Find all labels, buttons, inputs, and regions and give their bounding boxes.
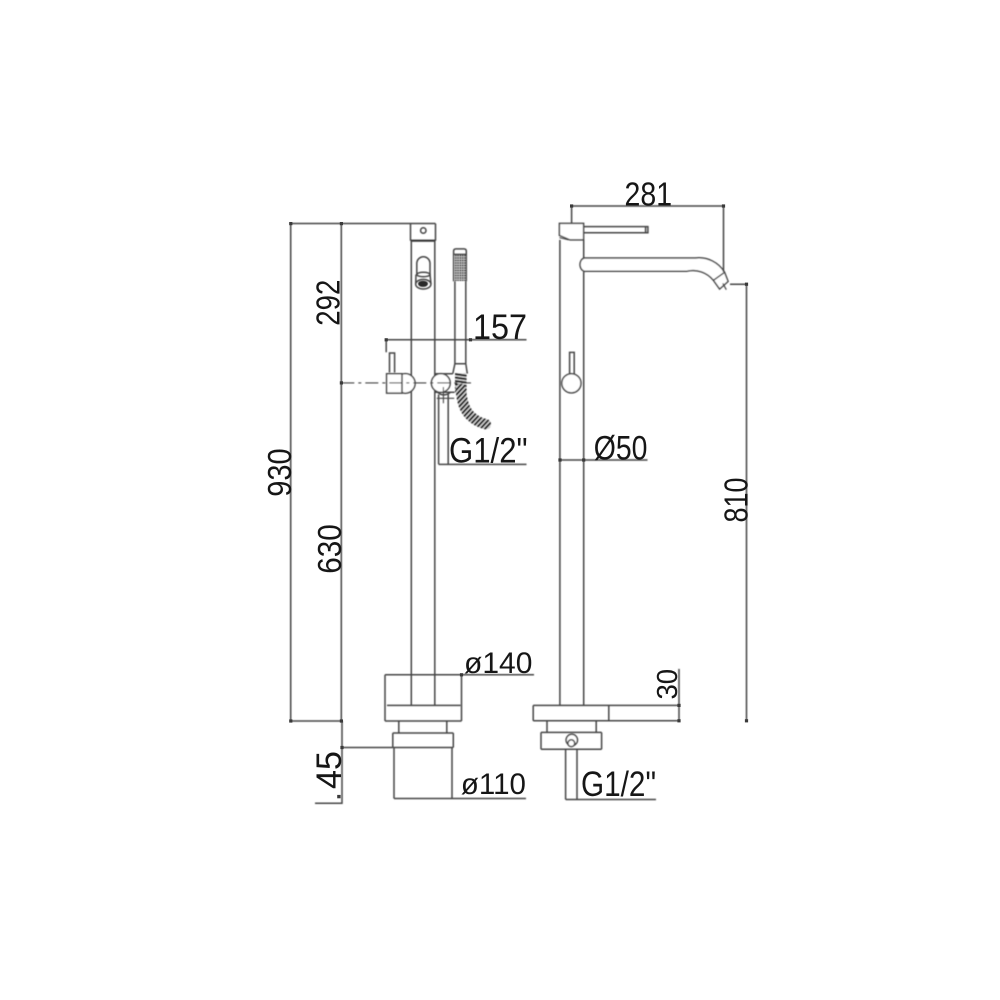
hand shower cone bbox=[453, 364, 468, 374]
wall bracket bbox=[411, 224, 436, 241]
G1/2 leader (left view) bbox=[439, 463, 527, 465]
svg-text:30: 30 bbox=[652, 669, 684, 700]
riser column (left view) bbox=[411, 241, 435, 706]
svg-text:630: 630 bbox=[311, 524, 348, 574]
svg-text:281: 281 bbox=[625, 175, 673, 212]
diverter knob (front) bbox=[562, 374, 581, 393]
G1/2 nipple below holder bbox=[438, 392, 450, 395]
tub spout outlet on column bbox=[417, 257, 430, 275]
hand shower handle bbox=[455, 281, 466, 364]
mixer handle body bbox=[396, 374, 416, 394]
diverter knob stem (front) bbox=[570, 352, 575, 374]
supply collar bbox=[541, 732, 602, 749]
hand shower head bbox=[454, 249, 467, 281]
dimension end ticks bbox=[289, 204, 748, 798]
svg-text:45: 45 bbox=[309, 751, 349, 789]
G1/2 leader (right view) bbox=[566, 799, 656, 801]
column (right view) bbox=[560, 240, 584, 706]
collar nut circles bbox=[566, 734, 577, 745]
lower collar bbox=[393, 733, 454, 748]
nipple center cross bbox=[437, 387, 454, 403]
dia110 leader line bbox=[394, 798, 526, 800]
svg-text:157: 157 bbox=[473, 307, 527, 347]
flange step bbox=[547, 721, 596, 733]
svg-text:ø140: ø140 bbox=[464, 647, 532, 680]
dim 157 line bbox=[386, 340, 526, 353]
flange neck bbox=[399, 721, 447, 733]
centerline tie at 292/630 split bbox=[291, 720, 342, 722]
base flange right view bbox=[533, 705, 679, 720]
mixer handle (side view) stem bbox=[390, 353, 395, 373]
hand shower holder ring bbox=[431, 374, 450, 393]
bracket hole bbox=[421, 228, 426, 233]
hose collar (hatched) bbox=[455, 373, 467, 392]
holder arm lines bbox=[435, 374, 454, 393]
dia50 leader bbox=[560, 459, 648, 461]
dim 45 line bbox=[315, 721, 393, 804]
centerline through holder bbox=[341, 382, 471, 384]
svg-text:292: 292 bbox=[310, 280, 347, 326]
svg-text:810: 810 bbox=[719, 478, 756, 523]
dim 281 line bbox=[572, 206, 724, 272]
spout tip tick bbox=[723, 283, 727, 289]
spout bbox=[580, 258, 728, 289]
floor socket cylinder dia110 bbox=[394, 748, 452, 799]
dim 292/630 line bbox=[340, 224, 342, 722]
handle lever bbox=[584, 227, 648, 233]
svg-text:Ø50: Ø50 bbox=[594, 429, 648, 467]
shower hose bbox=[461, 389, 486, 424]
dim 30 line bbox=[678, 669, 680, 721]
dim 810 line bbox=[730, 284, 747, 721]
supply pipe G1/2 bbox=[566, 749, 577, 799]
svg-text:G1/2": G1/2" bbox=[581, 765, 656, 804]
base flange left view + dia140 leader bbox=[385, 674, 534, 676]
left view top extension line bbox=[290, 223, 436, 225]
handle cap bbox=[559, 223, 583, 240]
dim 930 line bbox=[290, 224, 292, 722]
svg-text:G1/2": G1/2" bbox=[449, 430, 528, 470]
spout tip cut face edge bbox=[713, 272, 724, 280]
svg-text:930: 930 bbox=[261, 448, 298, 496]
svg-text:ø110: ø110 bbox=[461, 768, 526, 801]
